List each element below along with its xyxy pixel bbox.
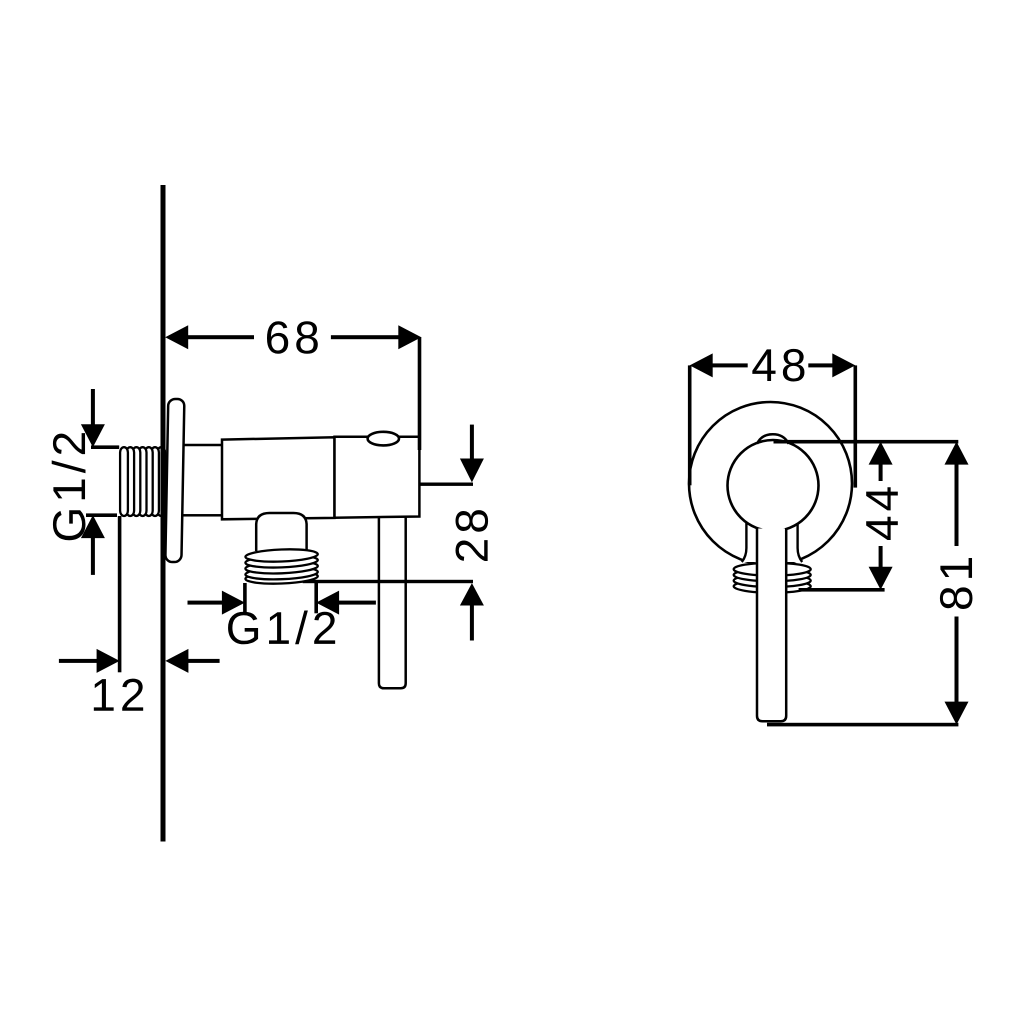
- shared top extension line for 44 / 81: [774, 440, 959, 444]
- inlet pipe threads G1/2 (coil of vertical rings, left of wall): [120, 447, 165, 516]
- dimension 12 text: [94, 679, 143, 711]
- top bump (cartridge top): [757, 434, 789, 444]
- valve neck between flange and body: [180, 445, 223, 515]
- front outlet threads: [734, 563, 811, 593]
- dimension 12 (wall thickness): [59, 516, 220, 673]
- valve body inner circle: [728, 440, 819, 531]
- dimension 48 text: [752, 349, 804, 382]
- dimension G1/2 left (inlet thread size): [81, 389, 119, 575]
- dimension 28 extension lines + arrows: [419, 425, 484, 641]
- G1/2 bottom text: [228, 611, 335, 645]
- dimension 28 lower extension line: [303, 580, 473, 583]
- front outlet neck side lines: [742, 495, 802, 562]
- bottom outlet neck dome: [256, 513, 306, 551]
- dimension 68 line + arrows: [165, 325, 421, 450]
- valve body main cylinder: [222, 437, 335, 519]
- dimension 68 text: [267, 321, 318, 354]
- handle stem (side view): [379, 510, 406, 688]
- dimension 44: [799, 442, 893, 592]
- dimension 44 text (rotated): [866, 487, 898, 540]
- wall line: [161, 185, 166, 842]
- bottom outlet threads G1/2 (stacked rings): [245, 548, 318, 585]
- dimension 28 text (rotated): [456, 510, 489, 561]
- valve body right cap: [335, 437, 420, 518]
- front handle (over threads): [757, 529, 786, 722]
- dimension 81 text (rotated): [940, 558, 973, 609]
- oval detail on top of cap: [368, 432, 399, 446]
- dimension 48: [688, 353, 857, 487]
- dimension 81: [767, 442, 969, 727]
- flange big circle: [689, 402, 852, 565]
- dimension G1/2 bottom (outlet thread size): [188, 583, 376, 615]
- front outlet neck (white fill): [742, 495, 802, 562]
- G1/2 left text (rotated): [52, 433, 86, 540]
- wall flange (escutcheon, side view): [165, 399, 184, 562]
